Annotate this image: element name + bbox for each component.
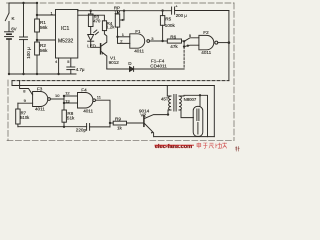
svg-text:100k: 100k [165,23,176,28]
resistor R5 [162,25,164,41]
diode D [130,67,134,72]
svg-text:56k: 56k [40,48,48,53]
svg-text:470: 470 [93,19,101,24]
resistor R9 (horizontal) [110,122,113,124]
watermark [155,143,240,152]
capacitor C2 200u (series in rail) [171,7,173,14]
dashed wire: F2 input to emitter line [183,47,185,69]
wire [36,32,38,42]
node column F4 inputs [63,95,65,97]
resistor R8 [62,110,66,122]
capacitor C1 100u [20,36,28,38]
wire: to IC1 pin 1 [37,14,56,16]
svg-text:elec-fans.com: elec-fans.com [155,144,192,150]
svg-text:12: 12 [65,91,70,96]
svg-text:F1: F1 [135,29,141,34]
svg-text:47k: 47k [170,44,178,49]
wire: supply line W2 [12,85,214,87]
bottom rail with capacitor 220p [18,126,87,128]
wire [36,55,38,74]
wire: top rail left [9,2,37,4]
dashed page border [7,3,235,141]
gate F2 4011 [199,35,214,49]
transistor V1 9012 [100,44,102,54]
wire: battery to ground rail [8,39,10,74]
svg-text:R5: R5 [165,17,171,22]
svg-text:1.2k: 1.2k [106,25,115,30]
resistor R1 [35,19,40,32]
gate F1 4011 [130,34,145,48]
node R3 top [90,10,92,12]
svg-text:6V: 6V [11,27,16,32]
svg-text:IC1: IC1 [61,26,69,32]
wire: to F1 inputs [118,36,130,38]
svg-text:4.7μ: 4.7μ [76,67,85,72]
bottom right wires [154,136,215,138]
svg-text:9012: 9012 [109,60,120,65]
svg-text:100 μ: 100 μ [26,47,31,59]
wire: right rail down [228,11,230,81]
wire: R1/R2 column [36,3,38,19]
wire: top rail right [77,10,79,12]
svg-text:51k: 51k [67,116,75,121]
svg-text:200 μ: 200 μ [176,13,188,18]
wire: IC pin 5 [70,58,72,67]
LED [88,35,94,41]
gate F3 4011 [33,92,48,107]
flash tube N8007 [193,106,203,136]
resistor R4 [102,21,106,31]
wire: to IC1 pin 2 [37,39,56,41]
gate F4 4011 [78,93,93,109]
svg-text:45T: 45T [161,97,169,102]
potentiometer RP 1M [117,11,119,14]
resistor R7 [16,109,20,124]
svg-text:F2: F2 [203,30,209,35]
svg-text:CD4011: CD4011 [150,63,167,68]
switch K [5,13,9,21]
svg-text:F3: F3 [37,87,43,92]
wire: left drop to bottom rail [11,81,13,86]
wire: R4 top to IC right pin [78,15,105,21]
svg-text:220p: 220p [76,128,87,133]
svg-text:56k: 56k [40,25,48,30]
svg-text:4011: 4011 [134,49,144,54]
svg-text:R9: R9 [115,117,121,122]
svg-text:1k: 1k [117,126,123,131]
svg-text:4011: 4011 [83,108,93,113]
svg-text:LED: LED [87,44,96,49]
svg-text:4011: 4011 [35,107,45,112]
resistor R6 (horizontal) [163,40,168,42]
op-amp IC1 M5232 box [56,10,78,59]
resistor R2 [35,42,40,55]
svg-text:F4: F4 [81,87,87,92]
wire: emitter line with diode D [107,68,130,70]
svg-text:10: 10 [55,93,60,98]
resistor R3 [90,11,92,14]
wire: C1 column [23,3,25,37]
wire: riser to F3 upper input [20,81,33,95]
svg-text:R6: R6 [170,35,176,40]
svg-text:N8007: N8007 [184,97,197,102]
svg-text:510k: 510k [20,115,30,120]
svg-text:V2: V2 [140,113,146,118]
transistor V2 9014 [143,116,145,127]
svg-text:1M: 1M [114,9,120,14]
svg-text:M5232: M5232 [58,39,74,45]
wire: F3 lower input / R7 [18,102,33,104]
wire: left supply rail [8,3,10,13]
battery 6V [5,31,14,33]
svg-text:13: 13 [65,98,70,103]
ground rail [9,73,76,75]
svg-text:4011: 4011 [201,50,211,55]
wires: to F2 inputs [184,38,199,42]
transformer T 45T [167,86,171,97]
node: top rail junctions [22,2,24,4]
wire: IC pin 4 to ground [58,58,60,74]
dashed feedback line A [12,80,229,82]
capacitor 4.7u [67,66,75,68]
